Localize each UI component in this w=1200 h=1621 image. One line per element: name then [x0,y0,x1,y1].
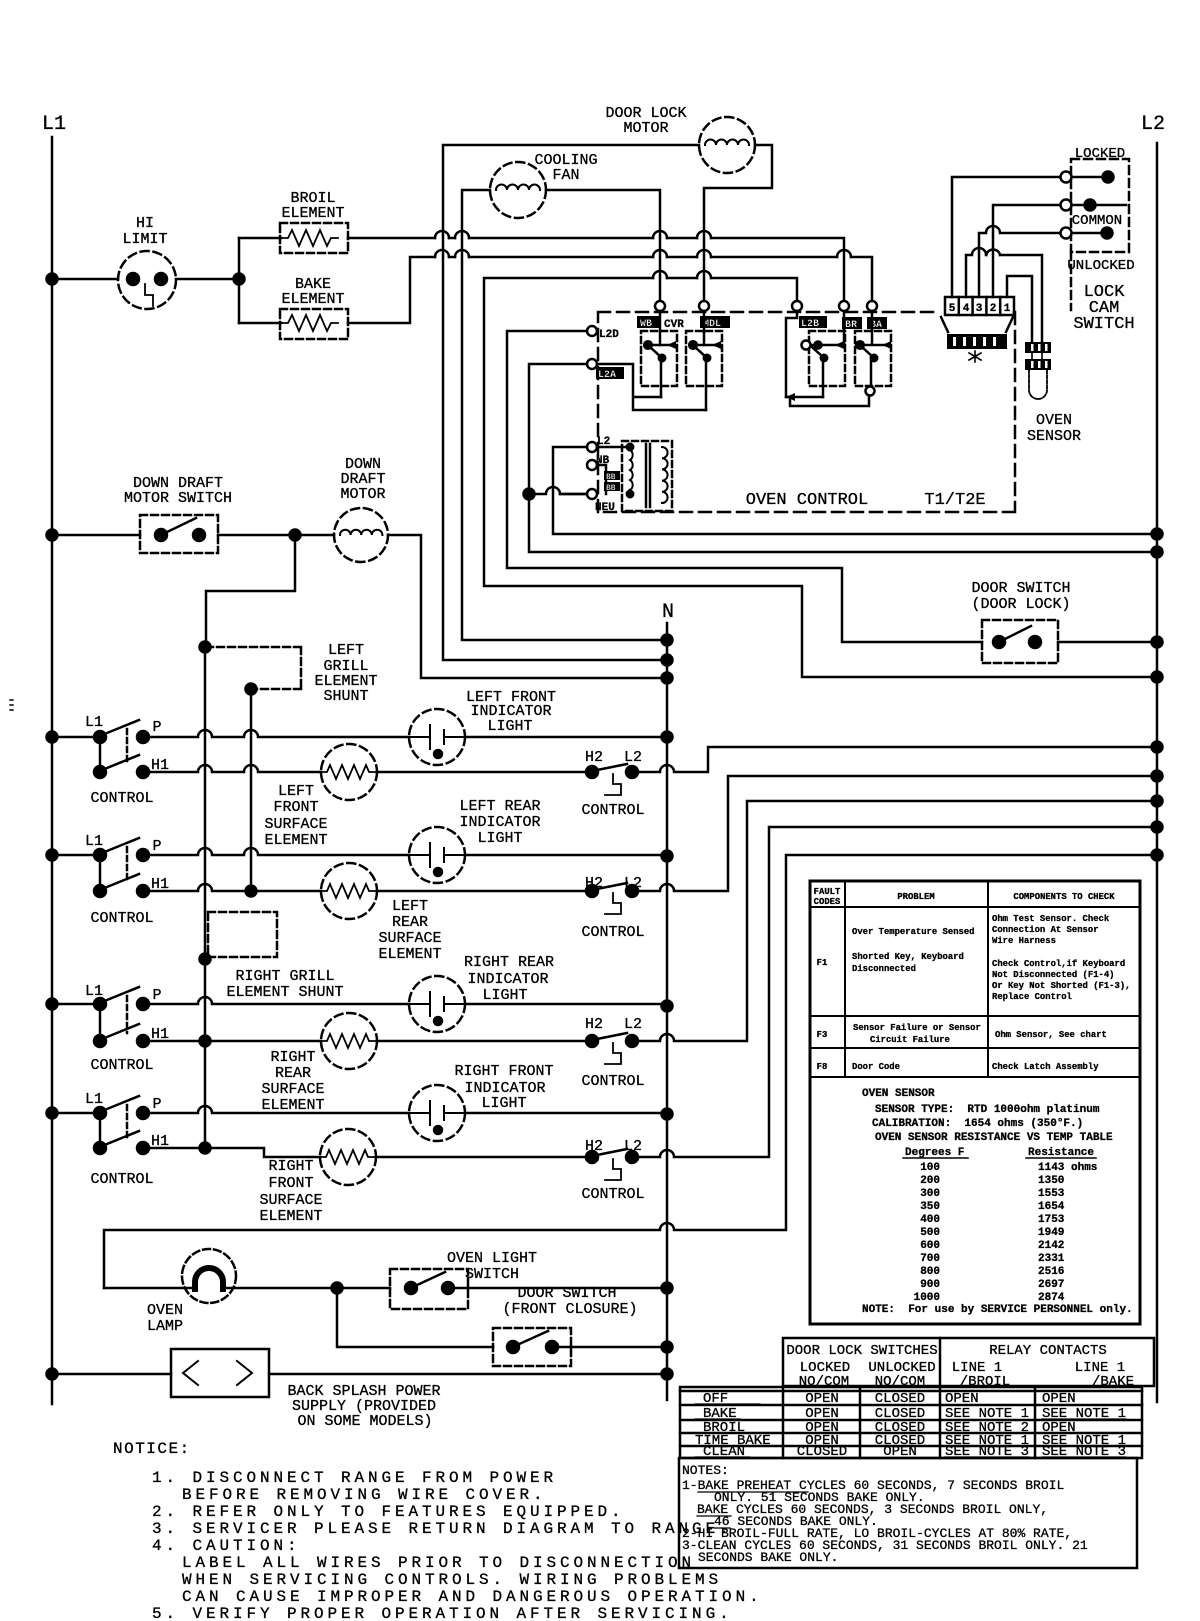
svg-text:ELEMENT: ELEMENT [261,1097,324,1114]
svg-text:1654: 1654 [1038,1201,1065,1213]
terminal BR [839,301,862,331]
svg-text:CONTROL: CONTROL [90,910,153,927]
terminal WB CVR [637,301,684,331]
svg-text:1: 1 [1004,303,1011,315]
wire L2 row 2 to rail [638,771,1163,892]
svg-text:H2: H2 [585,1138,603,1155]
wire rail to oven lamp loop [104,850,1163,1289]
notice text block [113,1440,763,1621]
terminal NB [587,455,610,470]
svg-text:BEFORE REMOVING WIRE COVER.: BEFORE REMOVING WIRE COVER. [182,1486,547,1504]
svg-text:L1: L1 [42,113,66,136]
svg-text:1753: 1753 [1038,1214,1065,1226]
svg-text:NEU: NEU [595,502,615,514]
svg-text:RIGHT FRONT: RIGHT FRONT [454,1063,553,1080]
svg-text:2. REFER ONLY TO FEATURES EQUI: 2. REFER ONLY TO FEATURES EQUIPPED. [152,1503,625,1521]
svg-text:H2: H2 [585,749,603,766]
svg-text:MOTOR: MOTOR [340,486,385,503]
relay K4 bake contact [790,311,891,406]
svg-text:MDL: MDL [703,319,721,330]
svg-text:2331: 2331 [1038,1253,1065,1265]
wire pin5 to locked [952,177,1061,297]
svg-text:L2: L2 [624,1016,642,1033]
wire lamp junction down to door switch [337,1288,493,1347]
svg-text:5: 5 [949,303,956,315]
svg-text:2874: 2874 [1038,1292,1065,1304]
svg-text:ELEMENT SHUNT: ELEMENT SHUNT [226,984,343,1001]
svg-text:NOTICE:: NOTICE: [113,1440,191,1458]
wire L2D feed through door lock switch [507,331,982,642]
wire H1 row 1 [143,765,321,772]
wire broil row to BR terminal [348,231,844,306]
wire P row 4 to N [143,1106,673,1120]
svg-text:Check Control,if Keyboard: Check Control,if Keyboard [992,959,1125,969]
svg-text:RIGHT GRILL: RIGHT GRILL [235,968,334,985]
svg-text:DOOR SWITCH: DOOR SWITCH [517,1285,616,1302]
wire L2 row 3 to rail [638,796,1163,1042]
wire L2 row 1 to rail [638,742,1163,773]
svg-text:H2: H2 [585,875,603,892]
svg-text:L1: L1 [85,714,103,731]
mode switch state table [680,1387,1142,1460]
svg-text:MOTOR: MOTOR [623,120,668,137]
connector J1 pins 5-1 [941,297,1014,362]
svg-text:(FRONT CLOSURE): (FRONT CLOSURE) [502,1301,637,1318]
terminal MDL [699,301,730,330]
svg-text:1. DISCONNECT RANGE FROM POWER: 1. DISCONNECT RANGE FROM POWER [152,1469,557,1487]
svg-text:PROBLEM: PROBLEM [897,892,934,902]
surface element left front [264,744,377,849]
svg-text:350: 350 [920,1201,940,1213]
wire transformer L2 feed to rail [553,447,1163,540]
svg-text:SWITCH: SWITCH [1073,315,1134,334]
wire NEU hump [524,487,588,500]
svg-text:WB: WB [640,319,652,330]
H2 L2 control switch 2 [377,875,645,941]
svg-text:LEFT REAR: LEFT REAR [459,798,540,815]
wire L2B feed row [484,271,1163,683]
wire junction to shunt column [206,535,295,647]
indicator light right front [409,1063,554,1141]
svg-text:2142: 2142 [1038,1240,1064,1252]
svg-text:CONTROL: CONTROL [90,1057,153,1074]
wire front closure switch to N [558,1342,673,1353]
terminal L2B [792,301,827,330]
svg-text:UNLOCKED: UNLOCKED [1067,258,1134,274]
door switch door lock S3 [971,580,1070,663]
svg-text:OVEN: OVEN [147,1302,183,1319]
svg-text:ELEMENT: ELEMENT [281,291,344,308]
svg-text:N: N [662,601,674,624]
surface element left rear [321,863,442,963]
svg-text:MOTOR SWITCH: MOTOR SWITCH [124,490,232,507]
svg-text:F3: F3 [817,1030,828,1040]
svg-text:700: 700 [920,1253,940,1265]
svg-text:L2: L2 [624,1138,642,1155]
H2 L2 control switch 1 [377,749,645,819]
oven lamp DS1 [104,1249,337,1335]
svg-text:OPEN: OPEN [1042,1391,1076,1407]
svg-text:1143 ohms: 1143 ohms [1038,1162,1097,1174]
wire pin1 to oven sensor [1007,276,1032,342]
svg-text:REAR: REAR [275,1065,311,1082]
notes block [679,1458,1137,1568]
svg-text:CAN CAUSE IMPROPER AND DANGERO: CAN CAUSE IMPROPER AND DANGEROUS OPERATI… [182,1588,763,1606]
svg-text:300: 300 [920,1188,940,1200]
svg-text:ELEMENT: ELEMENT [259,1208,322,1225]
svg-text:Over Temperature Sensed: Over Temperature Sensed [852,927,975,937]
svg-text:CLOSED: CLOSED [875,1391,925,1407]
control switch 2 left rear [47,833,170,927]
svg-text:2697: 2697 [1038,1279,1064,1291]
terminal BA [867,301,887,331]
relay K2 MDL contact [686,311,722,410]
wire L1 to hi limit [47,274,119,285]
svg-text:REAR: REAR [392,914,428,931]
svg-text:RIGHT: RIGHT [270,1049,315,1066]
svg-text:RIGHT: RIGHT [268,1158,313,1175]
svg-text:LIGHT: LIGHT [481,1095,526,1112]
svg-text:RIGHT REAR: RIGHT REAR [464,954,554,971]
oven control box U1 [598,312,1015,512]
svg-text:200: 200 [920,1175,940,1187]
svg-text:DOOR SWITCH: DOOR SWITCH [971,580,1070,597]
wire P row 3 to N [143,997,673,1012]
svg-text:COMPONENTS TO CHECK: COMPONENTS TO CHECK [1013,892,1115,902]
svg-text:Degrees F: Degrees F [905,1147,964,1159]
svg-text:SURFACE: SURFACE [259,1192,322,1209]
svg-text:LIMIT: LIMIT [122,231,167,248]
svg-text:P: P [152,1096,161,1113]
svg-text:LEFT: LEFT [278,783,314,800]
wire cooling fan right to WB terminal [546,190,660,301]
svg-text:LOCKED: LOCKED [1075,146,1125,162]
oven sensor RT1 [1025,342,1081,445]
svg-text:Replace Control: Replace Control [992,992,1072,1002]
svg-text:FAN: FAN [552,167,579,184]
svg-text:LEFT: LEFT [328,642,364,659]
svg-text:OVEN LIGHT: OVEN LIGHT [447,1250,537,1267]
svg-text:F1: F1 [817,958,828,968]
terminal NEU [587,489,615,514]
svg-text:Ohm Test Sensor. Check: Ohm Test Sensor. Check [992,914,1110,924]
wire L2 rail [1156,143,1159,1402]
svg-text:DOOR LOCK SWITCHES: DOOR LOCK SWITCHES [786,1343,937,1359]
wire door lock motor right to MDL terminal [704,145,772,301]
svg-text:SURFACE: SURFACE [378,930,441,947]
fault codes table [810,881,1140,1324]
door lock switches relay contacts header table [783,1338,1154,1390]
oven sensor resistance table [862,1088,1133,1316]
relay K3 broil contact [786,311,845,401]
wire pin3 to unlocked [979,226,1061,297]
svg-text:Connection At Sensor: Connection At Sensor [992,925,1099,935]
relay K1 CVR contact [641,311,677,397]
svg-text:CVR: CVR [664,319,684,331]
wire cooling fan left to N [462,190,673,646]
svg-text:(DOOR LOCK): (DOOR LOCK) [971,596,1070,613]
H2 L2 control switch 4 [376,1138,645,1203]
svg-text:1000: 1000 [914,1292,940,1304]
svg-text:Shorted Key, Keyboard: Shorted Key, Keyboard [852,952,964,962]
wire L2 row 4 to rail [638,822,1163,1158]
svg-text:LIGHT: LIGHT [482,987,527,1004]
control switch 3 right rear [47,983,170,1074]
door lock motor M2 [605,105,755,173]
wire L1 rail [51,137,54,1404]
mechanical link lock cam to oven control [1070,252,1073,310]
svg-text:INDICATOR: INDICATOR [467,971,548,988]
wire L1 to down draft switch [47,530,141,541]
svg-text:LABEL ALL WIRES PRIOR TO DISCO: LABEL ALL WIRES PRIOR TO DISCONNECTION [182,1554,695,1572]
wire bake row to BA terminal [348,250,872,323]
back splash power supply [47,1349,673,1430]
svg-text:P: P [152,838,161,855]
svg-text:F8: F8 [817,1062,828,1072]
svg-text:4. CAUTION:: 4. CAUTION: [152,1537,301,1555]
svg-text:BB: BB [606,473,616,482]
wire H1 row 2 [143,884,321,891]
svg-text:NOTE: For use by SERVICE PERS: NOTE: For use by SERVICE PERSONNEL only. [862,1304,1133,1316]
down draft motor switch S2 [124,475,232,553]
svg-text:L2D: L2D [599,329,619,341]
door switch front closure S5 [493,1285,638,1366]
svg-text:100: 100 [920,1162,940,1174]
hi limit switch [118,215,176,309]
svg-text:OPEN: OPEN [805,1391,839,1407]
node L2 label [1141,113,1165,136]
node L1 label [42,113,66,136]
svg-text:WHEN SERVICING CONTROLS. WIRIN: WHEN SERVICING CONTROLS. WIRING PROBLEMS [182,1571,722,1589]
wire hi limit to junction [176,238,245,323]
svg-text:4: 4 [963,303,970,315]
svg-text:NOTES:: NOTES: [682,1463,729,1478]
svg-text:CALIBRATION: 1654 ohms (350°F: CALIBRATION: 1654 ohms (350°F.) [872,1118,1083,1130]
svg-text:LEFT: LEFT [392,898,428,915]
svg-text:3. SERVICER PLEASE RETURN DIAG: 3. SERVICER PLEASE RETURN DIAGRAM TO RAN… [152,1520,733,1538]
svg-text:SHUNT: SHUNT [323,688,368,705]
svg-text:Not Disconnected (F1-4): Not Disconnected (F1-4) [992,970,1115,980]
oven light switch S4 [390,1250,537,1309]
svg-text:Circuit Failure: Circuit Failure [870,1035,950,1045]
svg-text:L1: L1 [85,1091,103,1108]
svg-text:Or Key Not Shorted (F1-3),: Or Key Not Shorted (F1-3), [992,981,1130,991]
cooling fan M1 [490,152,598,218]
svg-text:L2: L2 [624,749,642,766]
svg-text:ELEMENT: ELEMENT [264,832,327,849]
terminal L2D [587,326,619,341]
svg-text:SENSOR TYPE: RTD 1000ohm plat: SENSOR TYPE: RTD 1000ohm platinum [875,1104,1100,1116]
svg-text:OVEN CONTROL: OVEN CONTROL [746,491,868,510]
svg-text:CONTROL: CONTROL [581,924,644,941]
svg-text:600: 600 [920,1240,940,1252]
wire door lock motor left to N [443,145,699,666]
svg-text:FRONT: FRONT [268,1175,313,1192]
svg-text:BB: BB [606,484,616,493]
wire H1 row 4 [143,1148,320,1157]
svg-text:HI: HI [136,215,154,232]
svg-text:Wire Harness: Wire Harness [992,936,1056,946]
svg-text:1350: 1350 [1038,1175,1064,1187]
wire H1 row 3 [143,1040,321,1043]
svg-text:ON SOME MODELS): ON SOME MODELS) [297,1413,432,1430]
svg-text:LAMP: LAMP [147,1318,183,1335]
junction lamp row [332,1283,391,1294]
svg-text:CODES: CODES [814,897,841,907]
left grill element shunt [206,642,378,705]
wire down draft motor to N [388,535,673,684]
svg-text:500: 500 [920,1227,940,1239]
svg-text:2: 2 [990,303,997,315]
svg-text:900: 900 [920,1279,940,1291]
wire L2A to relay outputs [597,364,706,410]
svg-text:BR: BR [845,320,857,331]
node N label [662,601,674,624]
svg-text:SURFACE: SURFACE [261,1081,324,1098]
right grill element shunt [208,912,344,1001]
wire switch to motor junction [218,530,334,541]
svg-text:P: P [152,987,161,1004]
svg-text:SWITCH: SWITCH [465,1266,519,1283]
svg-text:P: P [152,719,161,736]
svg-text:Door Code: Door Code [852,1062,900,1072]
H2 L2 control switch 3 [377,1016,645,1090]
svg-text:1949: 1949 [1038,1227,1064,1239]
svg-text:SENSOR: SENSOR [1027,428,1081,445]
svg-text:LIGHT: LIGHT [477,830,522,847]
wire pin4 to oven sensor [966,248,1042,342]
svg-text:L1: L1 [85,983,103,1000]
transformer T1 [560,441,672,511]
svg-text:CONTROL: CONTROL [90,1171,153,1188]
svg-text:SECONDS BAKE ONLY.: SECONDS BAKE ONLY. [698,1550,838,1565]
svg-text:COMMON: COMMON [1072,213,1122,229]
svg-text:FAULT: FAULT [814,887,841,897]
wire P row 1 to N [143,730,673,743]
wire light switch to N [454,1283,673,1294]
svg-text:INDICATOR: INDICATOR [459,814,540,831]
svg-text:CONTROL: CONTROL [90,790,153,807]
wire P row 2 to N [143,848,673,862]
surface element right front [259,1129,376,1225]
svg-text:800: 800 [920,1266,940,1278]
svg-text:Disconnected: Disconnected [852,964,916,974]
indicator light left front [409,689,556,765]
bake element R-bake [239,276,348,339]
svg-text:FRONT: FRONT [273,799,318,816]
left margin tick marks [10,700,13,710]
wire shunt column vertical [200,642,211,1154]
svg-text:RELAY CONTACTS: RELAY CONTACTS [989,1343,1107,1359]
surface element right rear [261,1013,377,1114]
svg-text:OVEN: OVEN [1036,412,1072,429]
svg-text:LIGHT: LIGHT [487,718,532,735]
svg-text:CONTROL: CONTROL [581,802,644,819]
svg-text:Sensor Failure or Sensor: Sensor Failure or Sensor [853,1023,981,1033]
svg-text:3: 3 [976,303,983,315]
svg-text:ELEMENT: ELEMENT [378,946,441,963]
control switch 4 right front [47,1091,170,1188]
down draft motor M3 [334,456,388,562]
svg-text:Check Latch Assembly: Check Latch Assembly [992,1062,1099,1072]
svg-text:T1/T2E: T1/T2E [924,491,985,510]
indicator light left rear [409,798,541,883]
svg-text:CONTROL: CONTROL [581,1186,644,1203]
indicator light right rear [409,954,554,1032]
wire L2A feed to rail [529,364,1163,558]
svg-text:Resistance: Resistance [1028,1147,1094,1159]
svg-text:L2A: L2A [598,370,616,381]
svg-text:1553: 1553 [1038,1188,1065,1200]
svg-text:H2: H2 [585,1016,603,1033]
terminal L2A [587,359,624,381]
svg-text:SURFACE: SURFACE [264,816,327,833]
svg-text:2516: 2516 [1038,1266,1064,1278]
svg-text:L2B: L2B [801,319,819,330]
terminal L2 transformer [587,436,610,452]
svg-text:ELEMENT: ELEMENT [281,205,344,222]
svg-text:L2: L2 [624,875,642,892]
wire door lock switch to rail [1058,637,1163,648]
svg-text:OVEN SENSOR: OVEN SENSOR [862,1088,935,1100]
control switch 1 left front [47,714,170,807]
svg-text:Ohm Sensor, See chart: Ohm Sensor, See chart [995,1030,1107,1040]
svg-text:L1: L1 [85,833,103,850]
lock cam switch S1 [1061,146,1135,334]
svg-text:OVEN SENSOR RESISTANCE VS TEMP: OVEN SENSOR RESISTANCE VS TEMP TABLE [875,1132,1113,1144]
broil element R-broil [239,190,348,253]
svg-text:400: 400 [920,1214,940,1226]
svg-text:L2: L2 [1141,113,1165,136]
wire shunt branch vertical [246,689,257,897]
wire pin2 to common [993,205,1061,297]
wire N rail [666,623,669,1400]
svg-text:OPEN: OPEN [945,1391,979,1407]
svg-text:CONTROL: CONTROL [581,1073,644,1090]
svg-text:5. VERIFY PROPER OPERATION AFT: 5. VERIFY PROPER OPERATION AFTER SERVICI… [152,1605,733,1621]
